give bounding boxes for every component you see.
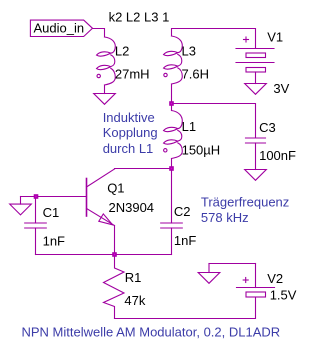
svg-text:Q1: Q1 (107, 181, 124, 196)
svg-text:Trägerfrequenz: Trägerfrequenz (201, 195, 289, 210)
svg-text:150µH: 150µH (182, 142, 221, 157)
svg-text:V1: V1 (267, 30, 283, 45)
svg-text:Induktive: Induktive (103, 110, 155, 125)
svg-text:NPN Mittelwelle AM Modulator,: NPN Mittelwelle AM Modulator, 0.2, DL1AD… (22, 325, 281, 340)
svg-text:1nF: 1nF (174, 233, 196, 248)
svg-text:Audio_in: Audio_in (34, 20, 85, 35)
svg-text:L1: L1 (182, 119, 196, 134)
svg-text:L2: L2 (115, 44, 129, 59)
svg-text:578 kHz: 578 kHz (201, 210, 249, 225)
svg-text:3V: 3V (273, 81, 289, 96)
svg-text:47k: 47k (124, 293, 145, 308)
svg-text:2N3904: 2N3904 (109, 200, 155, 215)
svg-text:Kopplung: Kopplung (103, 125, 158, 140)
svg-text:C1: C1 (43, 205, 60, 220)
svg-text:1.5V: 1.5V (270, 288, 297, 303)
svg-text:V2: V2 (267, 271, 283, 286)
svg-text:L3: L3 (182, 44, 196, 59)
svg-text:7.6H: 7.6H (182, 67, 209, 82)
svg-text:R1: R1 (125, 270, 142, 285)
svg-text:k2 L2 L3 1: k2 L2 L3 1 (109, 9, 170, 24)
svg-text:1nF: 1nF (43, 234, 65, 249)
svg-text:100nF: 100nF (259, 148, 296, 163)
svg-text:27mH: 27mH (115, 67, 150, 82)
svg-text:durch L1: durch L1 (103, 141, 154, 156)
svg-text:C2: C2 (174, 204, 191, 219)
svg-text:C3: C3 (259, 120, 276, 135)
